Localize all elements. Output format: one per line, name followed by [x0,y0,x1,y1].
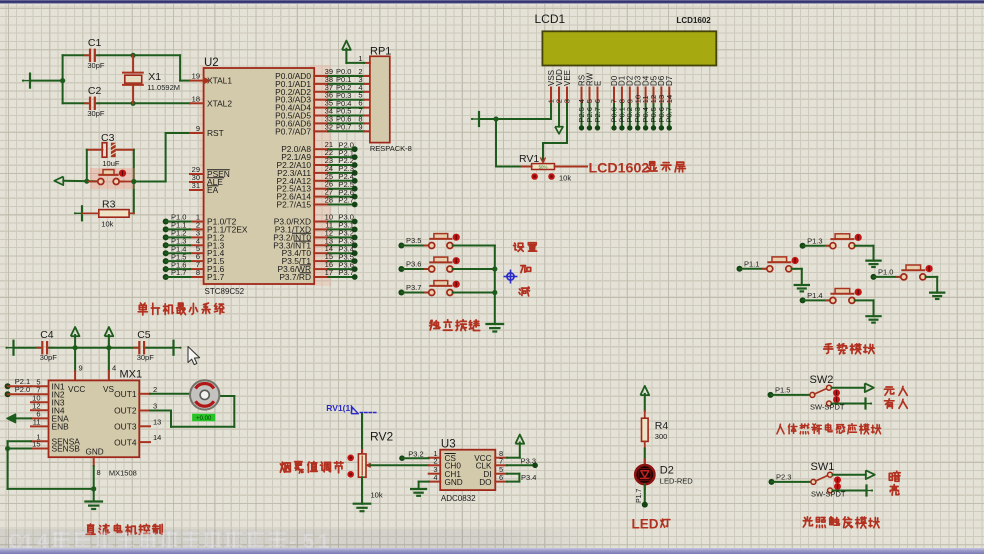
svg-text:8: 8 [97,468,101,477]
svg-text:E: E [593,81,602,86]
svg-text:U3: U3 [441,439,456,451]
svg-text:4: 4 [112,364,116,373]
svg-text:ADC0832: ADC0832 [441,494,476,503]
svg-text:DO: DO [479,478,491,487]
svg-text:P1.3: P1.3 [807,236,822,245]
svg-text:P3.3: P3.3 [521,456,536,465]
svg-text:10uF: 10uF [102,159,120,168]
svg-text:LCD1: LCD1 [535,12,566,26]
svg-text:OUT1: OUT1 [114,389,137,399]
svg-text:P2.3: P2.3 [776,473,791,482]
svg-text:LED-RED: LED-RED [660,477,694,486]
svg-text:C4: C4 [40,329,54,341]
svg-text:P2.7: P2.7 [339,196,354,205]
svg-text:XTAL2: XTAL2 [207,98,232,108]
svg-text:P3.7: P3.7 [406,283,421,292]
svg-text:RV2: RV2 [370,430,393,444]
svg-text:2: 2 [153,385,157,394]
svg-text:OUT3: OUT3 [114,422,137,432]
svg-text:8: 8 [196,268,200,277]
svg-text:1: 1 [358,54,362,63]
svg-text:P0.7: P0.7 [665,107,674,122]
svg-text:3: 3 [153,402,157,411]
svg-text:LCD1602: LCD1602 [589,160,650,176]
svg-text:6: 6 [593,99,602,103]
svg-text:U2: U2 [204,57,219,69]
svg-text:SENSB: SENSB [52,444,81,454]
svg-text:31: 31 [192,181,200,190]
svg-text:13: 13 [153,417,161,426]
svg-text:9: 9 [196,124,200,133]
svg-text:30pF: 30pF [87,109,105,118]
svg-text:OUT2: OUT2 [114,406,137,416]
svg-text:P2.7/A15: P2.7/A15 [277,200,312,210]
svg-text:28: 28 [325,196,333,205]
svg-text:P2.7: P2.7 [593,107,602,122]
svg-text:30pF: 30pF [40,353,58,362]
svg-text:18: 18 [192,94,200,103]
svg-text:X1: X1 [148,71,161,83]
svg-text:GND: GND [445,478,463,487]
svg-text:VS: VS [103,385,114,394]
svg-text:C1: C1 [88,37,102,49]
svg-text:P3.5: P3.5 [406,236,421,245]
svg-text:4: 4 [433,473,437,482]
svg-text:P1.1: P1.1 [744,260,759,269]
svg-text:P0.7: P0.7 [336,123,351,132]
svg-text:30pF: 30pF [87,61,105,70]
svg-text:11: 11 [33,417,41,426]
svg-text:ENB: ENB [52,422,70,432]
svg-text:15: 15 [32,440,40,449]
svg-text:P0.7/AD7: P0.7/AD7 [275,126,311,136]
svg-text:R4: R4 [655,420,669,432]
svg-text:P3.2: P3.2 [408,449,423,458]
svg-text:9: 9 [79,364,83,373]
svg-text:50%: 50% [539,165,548,170]
svg-text:14: 14 [665,95,674,103]
svg-text:11.0592M: 11.0592M [147,83,180,92]
svg-text:P3.4: P3.4 [521,473,536,482]
svg-text:RV1(1): RV1(1) [326,403,353,413]
svg-text:SW1: SW1 [811,461,835,473]
svg-text:SW-SPDT: SW-SPDT [810,403,845,412]
svg-text:9: 9 [358,122,362,131]
svg-text:SW2: SW2 [810,374,834,386]
svg-text:LED: LED [632,517,659,532]
svg-text:VCC: VCC [68,385,85,394]
svg-text:P3.7/RD: P3.7/RD [279,272,311,282]
svg-text:LCD1602: LCD1602 [677,16,712,25]
svg-text:P1.7: P1.7 [207,272,225,282]
svg-text:+0.00: +0.00 [196,416,212,422]
svg-text:MX1508: MX1508 [109,469,137,478]
svg-text:XTAL1: XTAL1 [207,76,232,86]
svg-text:P1.4: P1.4 [807,291,822,300]
svg-text:17: 17 [325,268,333,277]
svg-text:P1.5: P1.5 [775,386,790,395]
svg-text:RESPACK-8: RESPACK-8 [370,144,412,153]
svg-text:10k: 10k [559,174,571,183]
svg-text:P1.7: P1.7 [171,268,186,277]
svg-text:10k: 10k [101,220,113,229]
svg-text:SW-SPDT: SW-SPDT [811,490,846,499]
svg-text:6: 6 [499,473,503,482]
svg-text:P3.7: P3.7 [339,268,354,277]
svg-text:C2: C2 [88,85,102,97]
svg-text:RV1: RV1 [519,153,539,165]
svg-text:P2.0: P2.0 [15,385,30,394]
svg-text:STC89C52: STC89C52 [205,287,245,296]
svg-text:C5: C5 [137,329,151,341]
svg-text:P3.6: P3.6 [406,260,421,269]
svg-text:RP1: RP1 [370,46,391,58]
svg-text:14: 14 [153,433,161,442]
svg-text:D2: D2 [660,465,674,477]
svg-text:10k: 10k [371,491,383,500]
svg-text:P1.0: P1.0 [878,268,893,277]
svg-text:P1.7: P1.7 [636,488,643,503]
svg-text:EA: EA [207,185,219,195]
svg-text:32: 32 [325,122,333,131]
svg-text:R3: R3 [102,199,116,211]
svg-text:19: 19 [192,72,200,81]
svg-text:RST: RST [207,128,224,138]
svg-text:300: 300 [655,432,668,441]
svg-text:3: 3 [563,99,572,103]
svg-text:MX1: MX1 [120,369,143,381]
svg-text:30pF: 30pF [137,353,155,362]
svg-text:VEE: VEE [563,70,572,86]
svg-text:GND: GND [86,448,104,457]
svg-text:OUT4: OUT4 [114,437,137,447]
svg-text:D7: D7 [665,75,674,86]
